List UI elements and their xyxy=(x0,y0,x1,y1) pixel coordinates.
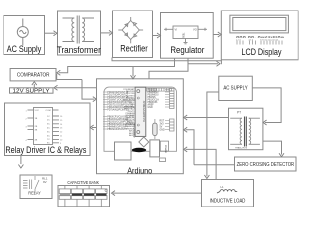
wire ZCD left to junctions xyxy=(194,164,235,166)
svg-text:ATMEGA328P-PU: ATMEGA328P-PU xyxy=(142,101,146,122)
top right header strip xyxy=(147,88,172,91)
svg-text:VCC: VCC xyxy=(35,110,40,112)
svg-text:Transformer: Transformer xyxy=(57,45,101,55)
svg-text:LCD Display: LCD Display xyxy=(242,47,282,57)
wire relay driver to relay xyxy=(20,156,22,165)
central ATmega IC xyxy=(135,87,146,136)
Arduino board drawing xyxy=(104,87,177,151)
small connector rect bottom right xyxy=(160,158,166,162)
wire PT to zero crossing detector xyxy=(263,141,282,154)
svg-text:Regulator: Regulator xyxy=(170,45,204,55)
svg-text:16: 16 xyxy=(60,116,63,118)
wire inductive load to capacitive bank xyxy=(113,192,202,194)
arrow into LCD xyxy=(218,32,222,37)
svg-text:CAPACITIVE BANK: CAPACITIVE BANK xyxy=(67,180,99,185)
svg-text:INDUCTIVE LOAD: INDUCTIVE LOAD xyxy=(210,199,246,205)
svg-text:1C: 1C xyxy=(47,116,50,118)
wire 12V supply to Arduino xyxy=(56,87,97,89)
svg-text:10: 10 xyxy=(60,139,63,141)
svg-text:3B: 3B xyxy=(35,129,38,131)
wire comparator arrow down to 12V branch xyxy=(57,74,82,80)
regulator 7805 symbol xyxy=(164,26,207,44)
svg-text:L1: L1 xyxy=(221,185,225,189)
svg-text:7805: 7805 xyxy=(182,33,185,39)
capacitive bank box xyxy=(58,186,110,207)
svg-text:4: 4 xyxy=(26,140,28,142)
relay driver box xyxy=(5,103,91,156)
svg-text:GND: GND xyxy=(148,107,153,109)
svg-text:2B: 2B xyxy=(35,126,38,128)
svg-text:ZERO CROSING DETECTOR: ZERO CROSING DETECTOR xyxy=(237,162,295,168)
arrow into Arduino right y117 xyxy=(184,115,188,120)
arrowheads xyxy=(18,30,284,195)
relay driver IC symbol xyxy=(28,108,60,145)
wire rectifier corner line xyxy=(112,58,221,61)
svg-text:Ardiuno: Ardiuno xyxy=(127,165,152,175)
svg-text:GND: GND xyxy=(160,130,165,132)
svg-text:11: 11 xyxy=(60,136,63,138)
power label component xyxy=(160,141,168,151)
relay box xyxy=(20,175,52,199)
svg-text:COMPARATOR: COMPARATOR xyxy=(17,73,50,79)
arrow bus2 into LCD leg xyxy=(217,61,221,66)
arrow into transformer xyxy=(54,31,58,36)
arrow up into comparator bottom xyxy=(32,82,37,86)
svg-text:4C: 4C xyxy=(47,128,50,130)
inductor symbol xyxy=(217,190,237,193)
transformer symbol xyxy=(63,16,95,44)
wire LCD leg xyxy=(220,60,222,64)
svg-text:2: 2 xyxy=(26,119,28,121)
bridge rectifier symbol xyxy=(118,17,143,43)
svg-text:4B: 4B xyxy=(35,139,38,141)
AC Supply box xyxy=(4,16,45,55)
svg-text:5V: 5V xyxy=(160,127,163,129)
capacitor C1 xyxy=(59,186,70,207)
wire regulator drop1 and bus to comparator xyxy=(59,58,175,72)
wire PT to Arduino arrow1 xyxy=(185,117,228,119)
wire bus2 regulator to LCD leg xyxy=(188,63,218,65)
arrow into Arduino right y149 xyxy=(184,147,188,152)
svg-text:14: 14 xyxy=(60,124,63,126)
black ellipse chip xyxy=(132,148,146,152)
relay symbol xyxy=(23,176,39,194)
svg-text:12V SUPPLY: 12V SUPPLY xyxy=(13,88,51,94)
arrow into PT right xyxy=(263,120,267,125)
wire rectifier to regulator xyxy=(153,35,159,37)
svg-text:Arduino Uno: Arduino Uno xyxy=(133,124,136,138)
svg-text:Rectifier: Rectifier xyxy=(120,43,148,53)
wire transformer to rectifier xyxy=(101,32,111,34)
svg-text:RELAY: RELAY xyxy=(28,191,41,196)
LCD module drawing xyxy=(230,15,289,33)
zero crossing detector box xyxy=(235,157,297,171)
crystal component xyxy=(153,123,157,135)
arrow into comparator xyxy=(57,70,61,75)
arrow into Arduino right y129 xyxy=(184,127,188,132)
comparator box xyxy=(10,69,56,81)
node CN mark xyxy=(105,189,107,191)
arrow down into relay xyxy=(18,165,23,169)
diamond shape xyxy=(139,137,149,147)
wire 12V branch to Arduino xyxy=(82,80,94,100)
arrow into capacitive bank xyxy=(112,191,116,196)
svg-text:AC SUPPLY: AC SUPPLY xyxy=(223,86,248,92)
arrow into rectifier xyxy=(109,30,113,35)
arrow into regulator xyxy=(157,33,161,38)
svg-text:5C: 5C xyxy=(47,131,50,133)
svg-text:12: 12 xyxy=(60,132,63,134)
svg-text:1: 1 xyxy=(26,111,28,113)
svg-text:PT: PT xyxy=(237,111,241,115)
svg-text:3C: 3C xyxy=(47,124,50,126)
AC source symbol xyxy=(17,19,28,46)
capacitor bank symbols xyxy=(59,186,107,207)
svg-text:Relay Driver IC & Relays: Relay Driver IC & Relays xyxy=(5,145,86,155)
wire ZCD branch to Arduino arrow2 xyxy=(186,130,195,165)
PT box xyxy=(229,108,263,150)
capacitor C3 xyxy=(83,186,94,207)
right header boxes xyxy=(170,89,175,132)
wire regulator to LCD xyxy=(213,34,219,36)
arrow down into inductive load xyxy=(204,175,209,179)
wire L2 into Arduino top xyxy=(149,58,188,79)
arrow into 12V supply xyxy=(54,85,58,90)
svg-text:13: 13 xyxy=(60,128,63,130)
svg-text:7C: 7C xyxy=(47,139,50,141)
svg-text:POWER: POWER xyxy=(164,145,166,154)
wire AC supply right to inductive load xyxy=(207,92,219,176)
svg-text:9V: 9V xyxy=(43,180,47,184)
wire 12V supply to comparator arrow xyxy=(33,84,35,88)
capacitor C2 xyxy=(71,186,82,207)
PT transformer symbol xyxy=(230,117,260,147)
Arduino box xyxy=(97,79,184,174)
arrow into relay driver xyxy=(90,125,94,130)
svg-text:VO: VO xyxy=(193,27,197,31)
inductive load box xyxy=(202,180,254,208)
wire bus1 drop to Arduino top xyxy=(132,67,134,77)
svg-text:VI: VI xyxy=(175,27,178,31)
wire AC supply to transformer xyxy=(45,32,56,34)
svg-text:2C: 2C xyxy=(47,120,50,122)
12V supply box xyxy=(10,88,54,93)
svg-text:TRAN-2P2S: TRAN-2P2S xyxy=(235,147,248,150)
wire Arduino to relay driver xyxy=(92,127,97,129)
svg-text:888 88. 8a23d08a: 888 88. 8a23d08a xyxy=(236,35,285,39)
svg-text:PB5/SCK/PCINT5: PB5/SCK/PCINT5 xyxy=(107,128,127,131)
LCD display box xyxy=(221,11,298,60)
svg-text:1B: 1B xyxy=(35,118,38,120)
svg-text:3: 3 xyxy=(26,127,28,129)
svg-text:COM: COM xyxy=(46,110,51,112)
arrow into Arduino top from bus1 xyxy=(131,75,136,79)
svg-text:6C: 6C xyxy=(47,135,50,137)
capacitor C4 xyxy=(96,186,107,207)
arrow down into ZCD xyxy=(279,153,284,157)
captions xyxy=(5,43,281,175)
svg-text:3V3: 3V3 xyxy=(160,124,165,126)
wire ZCD branch to Arduino arrow3 and load xyxy=(186,149,217,179)
USB connector xyxy=(115,142,132,160)
rectifier box xyxy=(113,11,153,58)
regulator box xyxy=(161,13,214,59)
svg-text:RST: RST xyxy=(160,121,165,123)
transformer box xyxy=(58,11,101,55)
svg-text:8C: 8C xyxy=(47,143,50,145)
wire AC supply right to PT xyxy=(252,88,281,123)
svg-text:AC Supply: AC Supply xyxy=(7,44,42,54)
svg-text:15: 15 xyxy=(60,120,63,122)
AC supply right box xyxy=(219,76,253,100)
IC left dense pin label column xyxy=(123,89,135,137)
arrow into Arduino left from 12V branch xyxy=(93,97,97,102)
power jack xyxy=(150,140,160,157)
right side pin labels of IC xyxy=(165,90,170,130)
